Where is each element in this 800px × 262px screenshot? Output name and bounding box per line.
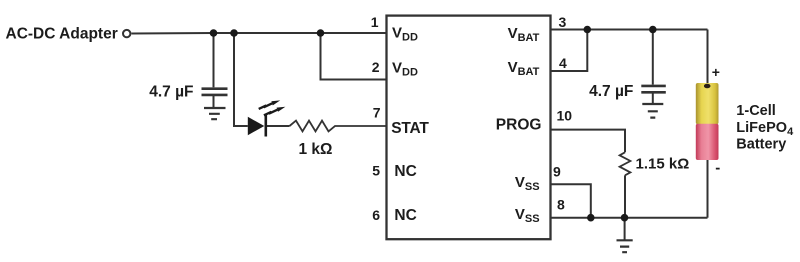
svg-text:VSS: VSS [515,174,540,193]
svg-text:1: 1 [371,14,379,30]
svg-text:1 kΩ: 1 kΩ [299,141,333,158]
wire battery negative [707,160,709,218]
svg-text:-: - [715,160,720,177]
junction node: C2 tap [649,26,657,34]
junction node: C1 tap [210,29,218,37]
svg-text:AC-DC Adapter: AC-DC Adapter [6,26,118,43]
capacitor C2 stub [652,30,654,85]
wire VBAT pin3 rail [551,29,708,31]
svg-text:VDD: VDD [392,59,418,78]
wire PROG pin10 [551,130,626,153]
svg-text:NC: NC [394,207,416,224]
capacitor C1 stub [213,33,215,87]
svg-text:1.15 kΩ: 1.15 kΩ [636,156,690,173]
battery top contact [704,84,711,89]
wire rail to bottom ground [624,218,626,240]
battery cell body pink [696,124,719,160]
wire VDD pin2 branch [321,33,387,80]
svg-text:3: 3 [559,14,567,30]
svg-text:8: 8 [557,197,565,213]
input terminal [123,30,130,37]
capacitor C2 plates [641,86,666,92]
wire VSS pin9 branch [551,184,591,218]
LED D1 emission arrow 1 [259,100,281,109]
svg-text:VBAT: VBAT [508,59,540,78]
svg-text:4: 4 [559,55,567,71]
capacitor C2 lower stub [652,93,654,103]
svg-text:LiFePO4: LiFePO4 [736,120,794,138]
junction node: VBAT join [584,26,592,34]
svg-text:2: 2 [372,59,380,75]
resistor R2 zigzag [620,152,631,175]
svg-text:5: 5 [372,163,380,179]
svg-text:9: 9 [553,164,561,180]
LED D1 emission arrow 2 [264,107,286,116]
svg-text:+: + [712,64,720,80]
svg-text:7: 7 [373,105,381,121]
wire VBAT pin4 branch [551,30,588,72]
svg-text:Battery: Battery [736,137,786,153]
svg-text:6: 6 [372,207,380,223]
junction node: LED tap [230,29,238,37]
wire R2 to VSS rail [624,175,626,217]
svg-text:4.7 µF: 4.7 µF [589,83,633,100]
LED D1 triangle [248,117,264,135]
capacitor C1 lower stub [213,96,215,107]
wire LED branch [234,33,248,126]
ground for C1 [204,108,226,119]
svg-text:4.7 µF: 4.7 µF [149,84,193,101]
ground for C2 [642,104,663,118]
svg-text:VDD: VDD [392,25,418,44]
battery cell body yellow [696,83,719,124]
wire input rail to VDD pin1 [132,32,387,35]
wire LED to resistor R1 [266,125,290,127]
svg-text:STAT: STAT [391,120,429,137]
resistor R1 zigzag [290,121,387,132]
junction node: VSS pin9 join [587,214,595,222]
junction node: R2 ground join [621,214,629,222]
capacitor C1 plates [202,89,228,95]
svg-text:VSS: VSS [515,206,540,225]
IC U1 body [387,16,551,240]
junction node: VDD2 tap [317,29,325,37]
svg-text:NC: NC [394,163,416,180]
svg-text:10: 10 [557,108,573,124]
svg-text:VBAT: VBAT [508,25,540,44]
svg-text:1-Cell: 1-Cell [736,103,776,119]
wire battery positive [707,30,709,85]
wire VSS pin8 rail [551,217,708,219]
svg-text:PROG: PROG [496,116,542,133]
ground bottom [617,240,633,252]
LED D1 cathode bar [264,115,267,137]
